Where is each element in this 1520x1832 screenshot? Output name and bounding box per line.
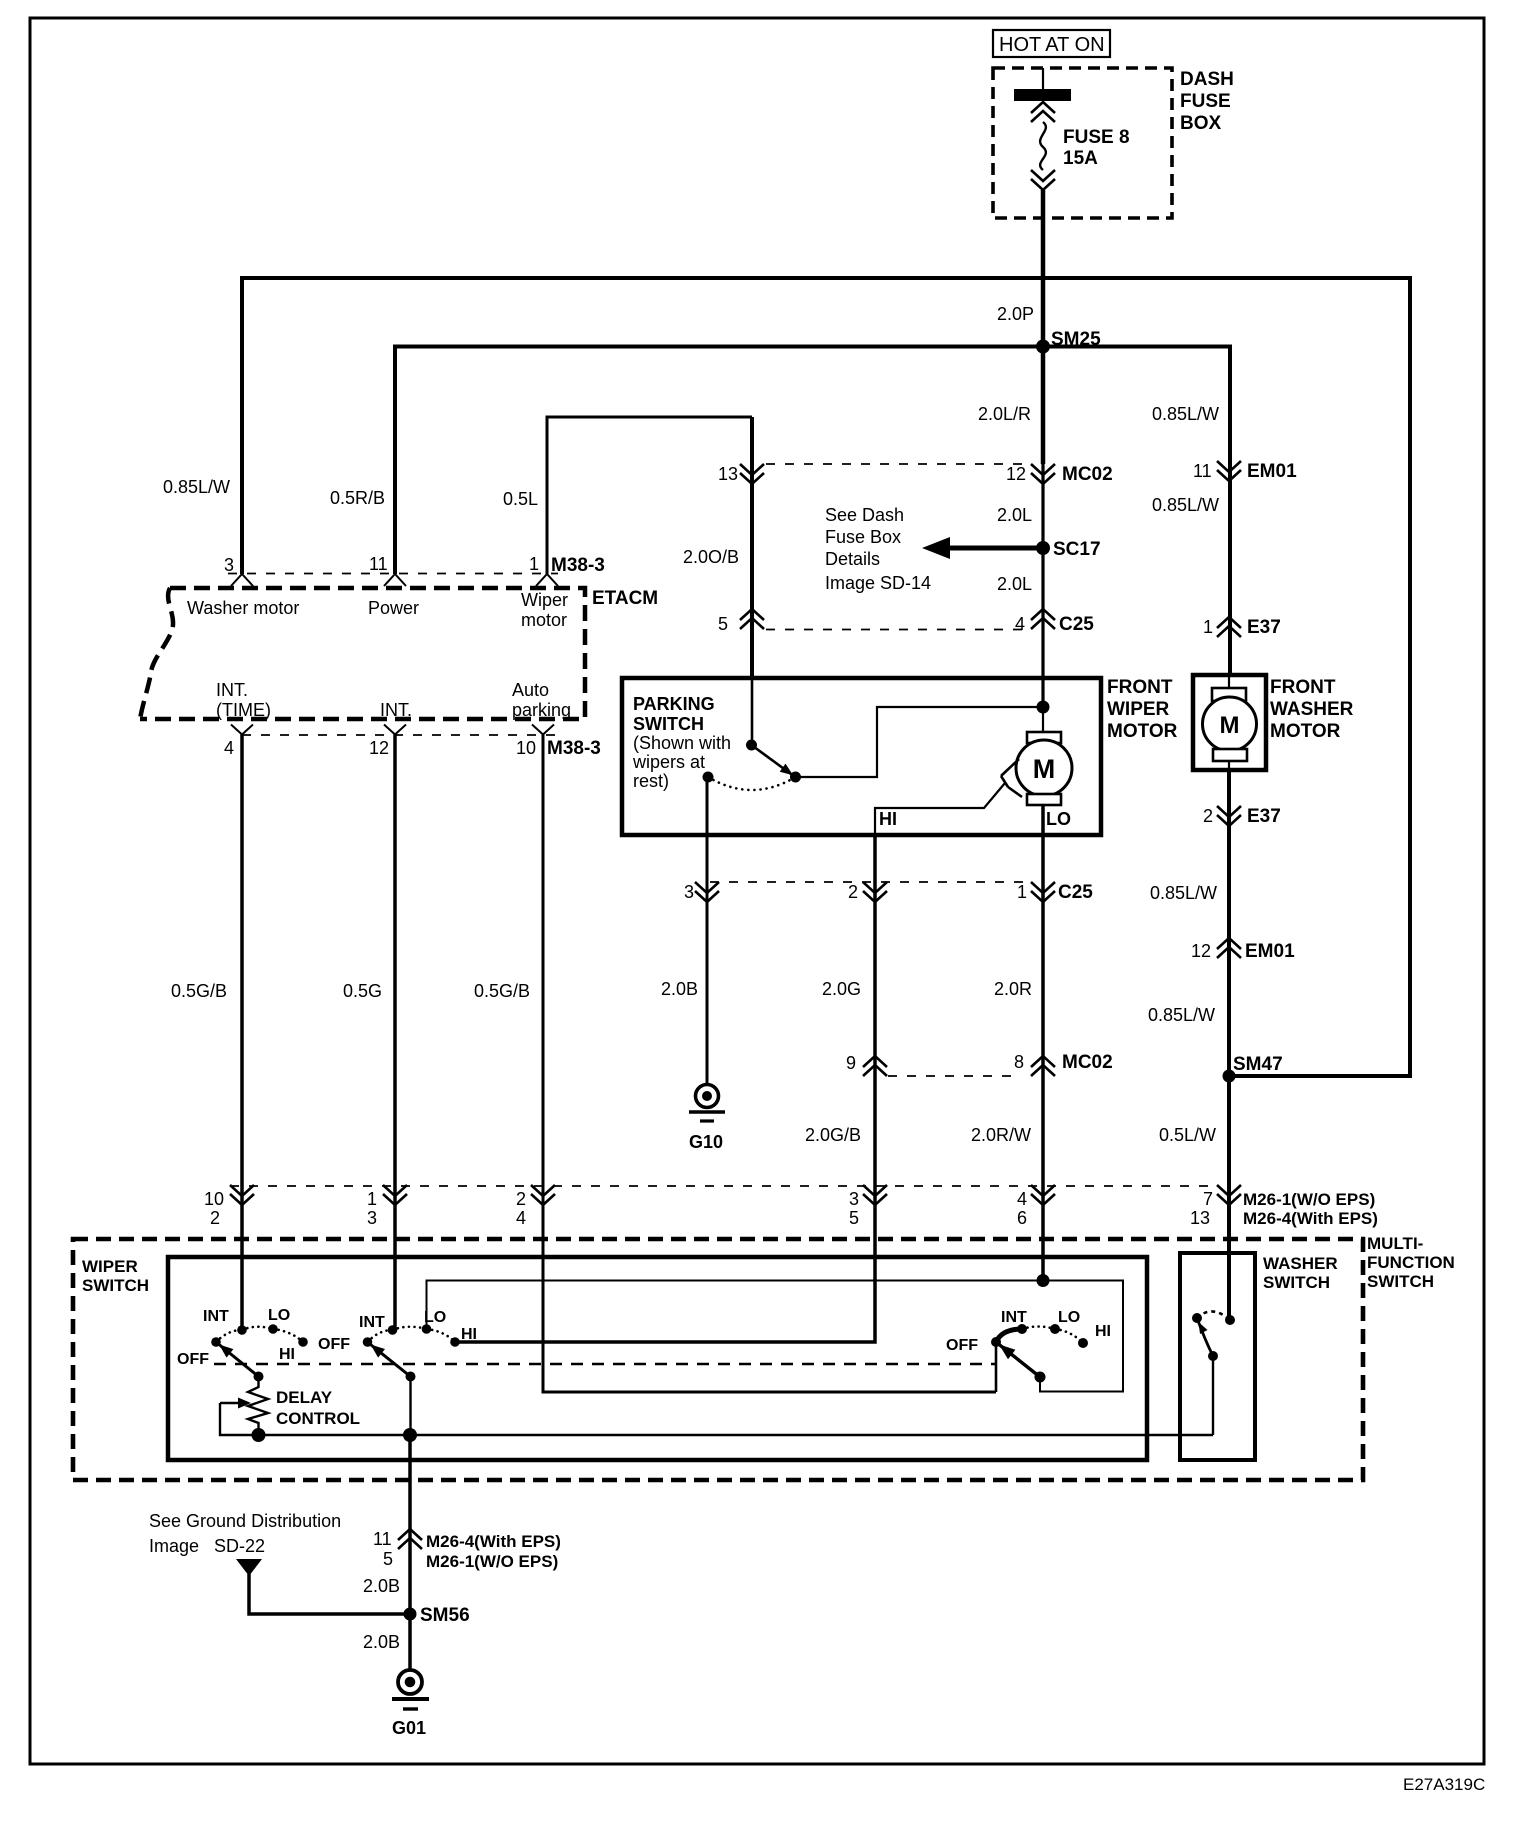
svg-text:wipers at: wipers at [632,752,705,772]
washer switch arm [1197,1318,1213,1356]
HOT AT ON box [993,30,1110,57]
fuse 8 element squiggle [1040,122,1046,170]
svg-text:motor: motor [521,610,567,630]
svg-text:ETACM: ETACM [592,588,658,609]
svg-text:BOX: BOX [1180,113,1222,134]
svg-text:CONTROL: CONTROL [276,1409,360,1428]
switch2 pivot [406,1372,416,1382]
wiper switch box [168,1257,1147,1460]
wire: washer motor to washer switch 0.85L/W / 0.5L/W [1227,770,1231,1320]
svg-text:(TIME): (TIME) [216,700,271,720]
svg-text:G01: G01 [392,1718,426,1738]
svg-text:11: 11 [369,554,388,574]
svg-text:HI: HI [1095,1323,1111,1340]
connector interface dashed line C25 3-2-1 [710,881,1032,883]
connector pin3 C25 [695,882,719,902]
ground G01 [392,1670,429,1709]
svg-text:M26-1(W/O EPS): M26-1(W/O EPS) [426,1552,558,1571]
wire: HI 2.0G / 2.0G/B from motor down then left to wiper switch HI [455,835,875,1342]
svg-text:12: 12 [1191,941,1211,961]
connector pin12 EM01 [1217,938,1241,958]
svg-text:E27A319C: E27A319C [1403,1775,1485,1794]
svg-text:0.5L: 0.5L [503,489,538,509]
svg-text:6: 6 [1017,1208,1027,1228]
svg-text:DELAY: DELAY [276,1388,333,1407]
svg-text:INT: INT [359,1314,385,1331]
svg-text:11: 11 [373,1529,392,1549]
svg-text:SWITCH: SWITCH [1263,1273,1330,1292]
svg-text:0.5L/W: 0.5L/W [1159,1125,1216,1145]
front washer motor box [1193,675,1266,770]
wire: 2.0P / 2.0L/R / 2.0L trunk SM25 to wiper motor [1041,346,1046,464]
wire: battery trunk from fuse to SM25 [1041,190,1046,346]
svg-text:SC17: SC17 [1053,539,1101,560]
delay control wiper return wire [220,1403,259,1435]
svg-text:Details: Details [825,549,880,569]
svg-text:Image SD-22: Image SD-22 [149,1536,265,1556]
connector pin7/13 M26 [1217,1185,1241,1205]
svg-text:2.0R/W: 2.0R/W [971,1125,1031,1145]
connector interface dashed line MC02 9-8 [888,1075,1016,1077]
svg-text:Wiper: Wiper [521,590,568,610]
switch1 contact HI [298,1337,308,1347]
ETACM pin interface dashed row2 [242,734,556,736]
switch3 pivot [1035,1372,1046,1383]
ETACM pin4 fork [231,725,253,735]
svg-text:0.85L/W: 0.85L/W [1150,883,1217,903]
switch3 OFF wire down [995,1342,998,1392]
fuse 8 connector chevron top [1031,102,1055,122]
svg-text:Fuse Box: Fuse Box [825,527,901,547]
svg-text:4: 4 [224,738,234,758]
dash fuse box dashed outline [993,68,1172,218]
junction SC17 [1036,541,1050,555]
svg-text:Power: Power [368,598,419,618]
svg-text:10: 10 [204,1189,224,1209]
svg-text:2.0G/B: 2.0G/B [805,1125,861,1145]
svg-text:0.85L/W: 0.85L/W [163,477,230,497]
svg-text:1: 1 [1017,882,1027,902]
HI brush wire [875,783,1005,835]
wiper motor M1 brush top [1027,732,1061,743]
washer motor M2 brush top [1212,688,1246,701]
washer switch dotted arc [1197,1311,1230,1320]
switch3 contact HI [1078,1338,1088,1348]
svg-text:5: 5 [383,1549,393,1569]
svg-text:M: M [1220,712,1240,739]
svg-text:WIPER: WIPER [82,1257,138,1276]
svg-text:5: 5 [849,1208,859,1228]
ground distribution triangle [236,1559,262,1576]
multi-function switch dashed box [73,1239,1363,1480]
switch1 contact INT [237,1325,247,1335]
svg-text:13: 13 [718,464,738,484]
svg-text:1: 1 [367,1189,377,1209]
switch1 contact LO [268,1324,278,1334]
wire: ETACM pin10 auto parking 0.5G/B down then right to switch3 OFF [543,735,996,1393]
svg-text:FRONT: FRONT [1270,677,1336,698]
delay control wiper arrow [220,1402,238,1404]
svg-text:5: 5 [718,614,728,634]
junction node in parking box [1037,701,1050,714]
svg-text:E37: E37 [1247,617,1281,638]
ETACM pin12 fork [384,725,406,735]
svg-text:2: 2 [1203,806,1213,826]
svg-text:SM56: SM56 [420,1605,470,1626]
svg-text:WASHER: WASHER [1263,1254,1338,1273]
junction SM56 [404,1608,417,1621]
svg-text:M26-4(With EPS): M26-4(With EPS) [426,1532,561,1551]
svg-text:2: 2 [210,1208,220,1228]
svg-text:parking: parking [512,700,571,720]
junction dot at 4/6 node [1037,1274,1050,1287]
svg-text:MOTOR: MOTOR [1270,721,1341,742]
connector pin1/3 M26 [383,1185,407,1205]
svg-text:2.0B: 2.0B [661,979,698,999]
svg-text:3: 3 [367,1208,377,1228]
svg-text:2: 2 [516,1189,526,1209]
svg-text:2.0L: 2.0L [997,574,1032,594]
svg-text:FRONT: FRONT [1107,677,1173,698]
ETACM pin1 fork [536,574,558,586]
svg-text:LO: LO [424,1309,446,1326]
svg-text:2.0B: 2.0B [363,1576,400,1596]
svg-text:See Dash: See Dash [825,505,904,525]
svg-text:FUNCTION: FUNCTION [1367,1253,1455,1272]
wire node to motor [1042,707,1044,732]
svg-text:12: 12 [1006,464,1026,484]
connector pin10/2 M26 [230,1185,254,1205]
svg-text:2.0L/R: 2.0L/R [978,404,1031,424]
svg-text:11: 11 [1193,461,1212,481]
switch2 dotted arc [368,1327,456,1342]
svg-text:M: M [1033,754,1056,784]
svg-text:1: 1 [1203,617,1213,637]
svg-text:C25: C25 [1059,614,1094,635]
switch2 contact LO [422,1324,432,1334]
connector pin1 E37 [1217,617,1241,637]
wire from moving contact up to motor feed node [796,707,1038,777]
connector pin2 C25 [863,882,887,902]
connector pin13 MC02 [740,464,764,484]
svg-text:4: 4 [1017,1189,1027,1209]
connector pin2 E37 [1217,806,1241,826]
SC17 arrow to dash fuse box details [946,546,1043,551]
connector pin3/5 M26 [863,1185,887,1205]
svg-text:Image SD-14: Image SD-14 [825,573,931,593]
wire into fuse [1042,68,1044,90]
svg-text:FUSE: FUSE [1180,91,1231,112]
svg-text:SM25: SM25 [1051,329,1101,350]
connector pin1 C25 low [1031,882,1055,902]
switch2 pivot to rail [409,1377,411,1436]
switch1 dotted arc [216,1327,303,1342]
connector pin11 EM01 [1217,461,1241,481]
svg-text:M38-3: M38-3 [547,738,601,759]
svg-text:PARKING: PARKING [633,694,715,714]
svg-text:M26-4(With EPS): M26-4(With EPS) [1243,1209,1378,1228]
connector interface dashed line M26 row [230,1185,1218,1187]
connector interface dashed line MC02 13-12 [766,463,1030,465]
svg-text:HI: HI [461,1326,477,1343]
common rail wire to washer switch arm [259,1434,1214,1437]
svg-text:2.0R: 2.0R [994,979,1032,999]
switch1 contact OFF [211,1337,221,1347]
washer switch box [1180,1253,1255,1460]
svg-text:0.5G/B: 0.5G/B [474,981,530,1001]
wiper motor M1 brush bottom [1027,794,1061,805]
svg-text:WIPER: WIPER [1107,699,1170,720]
connector pin9 MC02 [863,1056,887,1076]
switch3 contact OFF [991,1337,1001,1347]
svg-text:3: 3 [224,555,234,575]
washer switch pivot [1208,1351,1218,1361]
washer motor M2 body [1203,697,1257,751]
mechanical link dashed line [214,1363,995,1365]
svg-text:DASH: DASH [1180,69,1234,90]
svg-text:INT.: INT. [380,700,412,720]
svg-text:10: 10 [516,738,536,758]
connector pin11/5 M26 bottom [398,1529,422,1549]
svg-text:OFF: OFF [946,1337,978,1354]
svg-text:WASHER: WASHER [1270,699,1354,720]
svg-text:3: 3 [684,882,694,902]
switch2 arm [371,1345,411,1377]
wiper motor M1 body [1016,740,1072,796]
parking switch alternate position dotted arc [708,777,796,790]
svg-text:M26-1(W/O EPS): M26-1(W/O EPS) [1243,1190,1375,1209]
connector pin4 C25 [1031,609,1055,629]
svg-text:15A: 15A [1063,148,1098,169]
svg-text:3: 3 [849,1189,859,1209]
svg-text:INT: INT [203,1308,229,1325]
parking switch box [622,678,1101,835]
svg-text:LO: LO [1046,809,1071,829]
svg-text:1: 1 [529,554,539,574]
svg-text:INT.: INT. [216,680,248,700]
wire: ground distribution branch to SM56 [249,1574,406,1614]
ETACM pin3 fork [231,574,253,586]
svg-text:9: 9 [846,1053,856,1073]
svg-text:EM01: EM01 [1247,461,1297,482]
svg-text:SWITCH: SWITCH [82,1276,149,1295]
connector pin12 MC02 [1031,464,1055,484]
connector pin2/4 M26 [531,1185,555,1205]
svg-text:0.85L/W: 0.85L/W [1152,404,1219,424]
svg-text:0.85L/W: 0.85L/W [1148,1005,1215,1025]
svg-text:E37: E37 [1247,806,1281,827]
svg-text:MULTI-: MULTI- [1367,1234,1423,1253]
svg-text:2.0L: 2.0L [997,505,1032,525]
ground G10 [689,1085,725,1122]
svg-text:7: 7 [1203,1189,1213,1209]
wire: parking switch contact to G10 ground 2.0B [706,777,709,1084]
svg-text:0.5R/B: 0.5R/B [330,488,385,508]
switch3 arm [999,1344,1040,1377]
svg-text:OFF: OFF [177,1351,209,1368]
svg-text:0.85L/W: 0.85L/W [1152,495,1219,515]
washer motor out wire [1228,761,1230,770]
junction SM25 [1036,340,1050,354]
svg-text:G10: G10 [689,1132,723,1152]
connector pin4/6 M26 [1031,1185,1055,1205]
svg-text:2.0G: 2.0G [822,979,861,999]
svg-text:2.0P: 2.0P [997,304,1034,324]
wire: ETACM pin4 INT(TIME) 0.5G/B down to switch1 INT [240,735,244,1331]
svg-text:Washer motor: Washer motor [187,598,299,618]
switch2 contact OFF [363,1337,373,1347]
fuse 8 bus bar [1014,89,1071,101]
svg-text:HI: HI [879,809,897,829]
connector interface dashed line C25 5-4 [766,629,1030,631]
svg-text:SM47: SM47 [1233,1054,1283,1075]
ETACM module dashed box [140,588,585,719]
svg-text:OFF: OFF [318,1336,350,1353]
wire: 0.85L/W loop ETACM pin3 up over to right side down to SM47 [242,278,1410,1076]
switch3 thick arc OFF-INT [996,1329,1022,1342]
svg-text:2: 2 [848,882,858,902]
switch1 arm [219,1345,259,1377]
junction dot delay/common [252,1428,266,1442]
svg-text:SWITCH: SWITCH [633,714,704,734]
svg-text:INT: INT [1001,1309,1027,1326]
svg-text:EM01: EM01 [1245,941,1295,962]
switch3 dotted arc [1022,1327,1083,1344]
wire: LO output 2.0R / 2.0R/W from motor down to wiper switch [1041,806,1045,1281]
switch3 contact INT [1017,1324,1027,1334]
svg-text:13: 13 [1190,1208,1210,1228]
switch2 contact INT [388,1325,398,1335]
parking switch rest contact [703,772,714,783]
svg-text:MOTOR: MOTOR [1107,721,1178,742]
svg-text:rest): rest) [633,771,669,791]
svg-text:MC02: MC02 [1062,464,1113,485]
svg-text:See Ground Distribution: See Ground Distribution [149,1511,341,1531]
ETACM pin interface dashed row1 [228,573,558,575]
svg-text:0.5G/B: 0.5G/B [171,981,227,1001]
svg-text:(Shown with: (Shown with [633,733,731,753]
svg-text:C25: C25 [1058,882,1093,903]
svg-text:0.5G: 0.5G [343,981,382,1001]
switch3 contact LO [1050,1324,1060,1334]
switch2 contact HI [450,1337,460,1347]
svg-text:M38-3: M38-3 [551,555,605,576]
junction dot switch2 pivot rail [403,1428,417,1442]
svg-text:8: 8 [1014,1052,1024,1072]
junction SM47 [1223,1070,1236,1083]
svg-text:2.0O/B: 2.0O/B [683,547,739,567]
svg-text:LO: LO [268,1307,290,1324]
wiper motor HI brush funnel [1001,759,1022,797]
delay control resistor [248,1377,268,1431]
ETACM pin10 fork [532,725,554,735]
washer switch contact B [1225,1315,1235,1325]
svg-text:FUSE 8: FUSE 8 [1063,127,1130,148]
wire: wiper switch common to pin 11/5, SM56, G01 2.0B [408,1435,412,1670]
fuse 8 connector chevron bottom [1031,170,1055,190]
connector pin8 MC02 [1031,1056,1055,1076]
washer motor M2 brush bottom [1213,749,1247,761]
svg-text:4: 4 [516,1208,526,1228]
svg-text:2.0B: 2.0B [363,1632,400,1652]
parking switch common contact [746,740,757,751]
parking switch arm [752,745,794,776]
svg-text:HOT AT ON: HOT AT ON [999,34,1105,56]
svg-text:SWITCH: SWITCH [1367,1272,1434,1291]
wire: 0.5L ETACM pin1 up and over / 2.0O/B down to parking switch [547,417,752,574]
connector pin5 C25 [740,609,764,629]
washer switch contact A [1192,1313,1202,1323]
parking switch moving contact [790,772,801,783]
svg-text:4: 4 [1015,614,1025,634]
svg-text:Auto: Auto [512,680,549,700]
svg-text:HI: HI [279,1346,295,1363]
wire: ETACM pin12 INT. 0.5G down to switch2 INT [393,735,397,1331]
washer motor feed wire [1228,675,1230,688]
ETACM pin11 fork [384,574,406,586]
switch2 LO wire up and over to 4/6 node [427,1281,1124,1392]
svg-text:MC02: MC02 [1062,1052,1113,1073]
wire: 0.5R/B SM25 branch to ETACM pin11 and right branch to washer motor [395,347,1230,676]
svg-text:LO: LO [1058,1309,1080,1326]
washer switch pivot wire to rail [1212,1356,1214,1435]
svg-text:12: 12 [369,738,389,758]
switch1 pivot [254,1372,264,1382]
